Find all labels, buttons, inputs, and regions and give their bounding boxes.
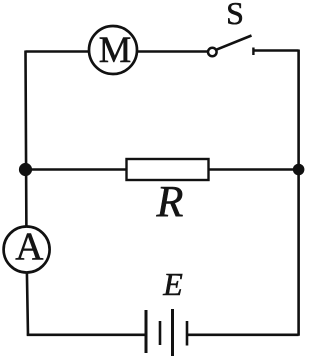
node left junction [19, 163, 32, 176]
wire left vertical [26, 51, 29, 336]
svg-text:A: A [15, 225, 43, 268]
svg-text:E: E [162, 266, 183, 302]
svg-text:M: M [99, 29, 131, 70]
battery E [146, 309, 187, 356]
wire top-right (switch contact to right corner) [253, 49, 299, 52]
resistor R [127, 159, 209, 180]
ammeter A [4, 225, 50, 273]
wire bottom-right (battery to corner) [187, 333, 299, 336]
svg-text:R: R [156, 177, 184, 226]
wire right vertical [297, 50, 300, 336]
wire middle horizontal [26, 168, 299, 171]
node right junction [293, 164, 305, 176]
switch S [208, 36, 253, 57]
wire bottom-left (corner to battery) [27, 333, 146, 336]
svg-text:S: S [226, 0, 244, 31]
motor M [89, 26, 137, 74]
wire top (left node to switch pivot) [26, 50, 209, 53]
